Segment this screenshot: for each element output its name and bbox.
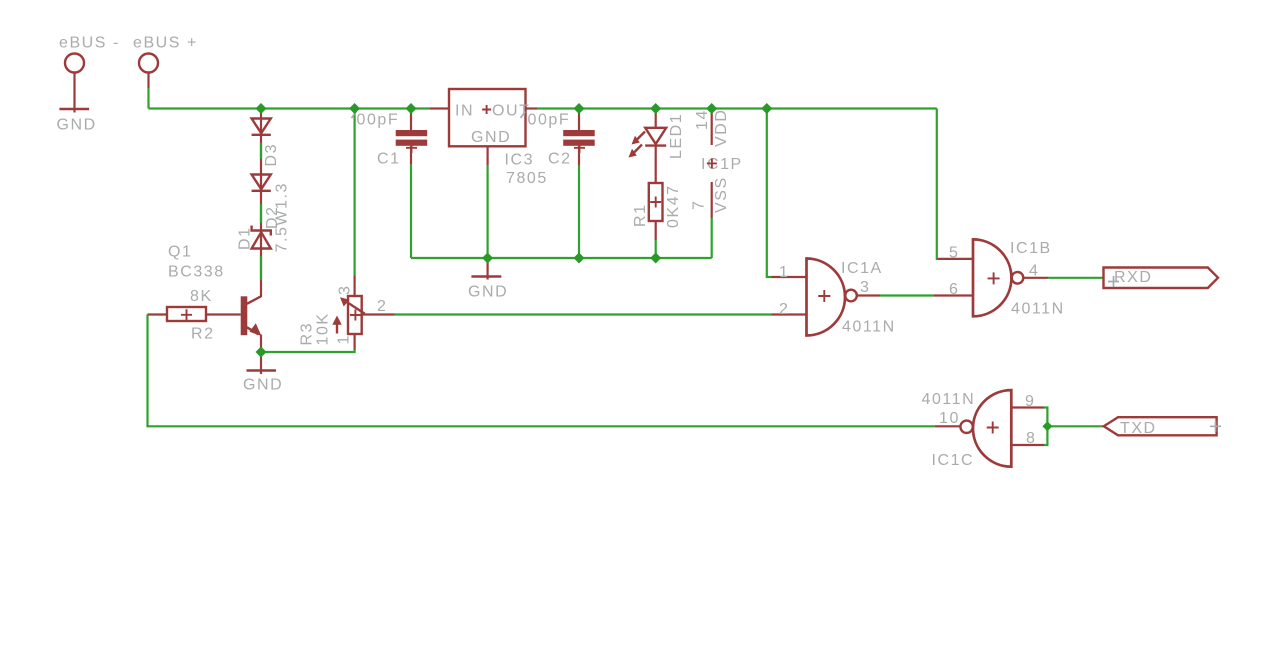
junction ground rail at R1: [650, 253, 661, 264]
svg-text:IC3: IC3: [505, 152, 535, 169]
resistor R1: [649, 183, 663, 240]
svg-text:00pF: 00pF: [357, 112, 400, 129]
voltage regulator IC3 7805: [430, 89, 537, 165]
wire drop to R3 pin3: [354, 109, 356, 276]
svg-text:3: 3: [337, 285, 354, 295]
svg-text:7805: 7805: [506, 170, 548, 187]
wire middle net R3 pin2 to IC1A pin2: [395, 313, 772, 315]
svg-text:7: 7: [691, 200, 708, 210]
resistor R2: [148, 307, 241, 321]
wire top rail left: [149, 107, 431, 109]
wire top rail right: [537, 107, 937, 109]
svg-text:10K: 10K: [315, 312, 332, 345]
wire drop to IC1A pin1: [767, 109, 772, 278]
svg-text:eBUS +: eBUS +: [133, 35, 198, 52]
svg-text:14: 14: [694, 109, 711, 130]
junction top rail at VDD: [706, 103, 717, 114]
wire IC1C pins 9-8 link: [1044, 408, 1047, 446]
flag TXD: [1104, 417, 1221, 437]
svg-text:D3: D3: [263, 143, 280, 167]
svg-text:00pF: 00pF: [528, 112, 571, 129]
power symbol IC1P VSS pin 7: [691, 176, 731, 218]
value 100pF (C2): [521, 112, 571, 129]
svg-text:C2: C2: [548, 151, 572, 168]
svg-text:IC1A: IC1A: [841, 260, 883, 277]
diode D2: [252, 175, 271, 191]
diode chain pin line: [260, 109, 262, 298]
ground symbol GND (eBUS-): [57, 109, 97, 134]
junction top rail at LED1: [650, 103, 661, 114]
svg-text:C1: C1: [377, 151, 401, 168]
svg-text:7.5W1.3: 7.5W1.3: [274, 182, 291, 252]
terminal eBUS-: [59, 35, 120, 113]
svg-text:VDD: VDD: [713, 109, 730, 147]
svg-text:6: 6: [949, 281, 959, 298]
wire IC1A out to IC1B pin6: [880, 294, 934, 296]
svg-text:4011N: 4011N: [1011, 301, 1065, 318]
zener diode D1: [252, 226, 271, 249]
wire R1 lower drop: [655, 240, 657, 258]
potentiometer R3: [332, 276, 394, 350]
svg-text:GND: GND: [468, 284, 508, 301]
wire ground rail: [411, 257, 712, 259]
capacitor C2: [563, 109, 595, 166]
junction IC1C output link: [1042, 421, 1052, 431]
junction Q1 emitter: [256, 347, 267, 358]
svg-text:GND: GND: [243, 377, 283, 394]
svg-text:IN: IN: [455, 103, 474, 120]
svg-text:5: 5: [949, 245, 959, 262]
value 100pF (C1): [352, 112, 400, 129]
svg-text:LED1: LED1: [668, 113, 685, 159]
junction ground rail at 7805: [482, 253, 493, 264]
svg-text:2: 2: [779, 301, 789, 318]
transistor Q1: [241, 296, 262, 352]
svg-text:TXD: TXD: [1120, 420, 1157, 437]
svg-text:2: 2: [377, 298, 387, 315]
wire VSS drop: [711, 218, 713, 258]
junction ground rail at C2: [574, 253, 585, 264]
wire 7805 gnd drop: [487, 165, 489, 258]
wire drop to IC1B pin5: [936, 109, 939, 259]
wire long TXD net: [148, 315, 935, 427]
svg-text:8: 8: [1026, 430, 1036, 447]
junction top rail at R3 drop: [349, 103, 360, 114]
junction top rail at D3: [256, 103, 267, 114]
svg-text:BC338: BC338: [168, 264, 225, 281]
svg-text:4: 4: [1029, 263, 1039, 280]
svg-text:IC1P: IC1P: [701, 156, 743, 173]
svg-text:IC1B: IC1B: [1010, 240, 1052, 257]
flag RXD: [1104, 268, 1219, 289]
svg-text:1: 1: [779, 264, 789, 281]
svg-text:GND: GND: [57, 117, 97, 134]
wire IC1B out to RXD: [1048, 277, 1104, 279]
svg-text:9: 9: [1025, 393, 1035, 410]
svg-text:R3: R3: [299, 322, 316, 346]
nand gate IC1B: [934, 239, 1048, 316]
svg-text:4011N: 4011N: [922, 391, 976, 408]
svg-text:0K47: 0K47: [665, 184, 682, 228]
svg-text:RXD: RXD: [1114, 269, 1152, 286]
svg-text:VSS: VSS: [713, 176, 730, 213]
diode D3: [252, 119, 271, 135]
power symbol IC1P VDD pin 14: [694, 109, 730, 148]
svg-text:R1: R1: [632, 203, 649, 227]
ground symbol GND (Q1 emitter): [243, 352, 283, 394]
svg-text:10: 10: [939, 410, 960, 427]
junction top rail at C1: [406, 103, 417, 114]
junction top rail at C2: [574, 103, 585, 114]
svg-text:D1: D1: [237, 226, 254, 250]
wire between D1 and Q1 collector: [260, 256, 262, 280]
svg-text:R2: R2: [191, 326, 215, 343]
capacitor C1: [396, 109, 428, 165]
wire C2 lower drop: [578, 165, 580, 258]
wire between D3 and D2: [260, 143, 262, 159]
junction top rail at IC1A pin1 drop: [761, 103, 772, 114]
svg-text:3: 3: [860, 279, 870, 296]
wire eBUS+ drop: [147, 88, 149, 109]
ground symbol GND (rail): [468, 258, 508, 301]
nand gate IC1A: [772, 259, 881, 336]
wire between D2 and D1: [260, 204, 262, 223]
svg-text:1: 1: [336, 334, 353, 344]
wire C1 lower to ground rail: [410, 165, 412, 258]
svg-text:4011N: 4011N: [842, 319, 896, 336]
svg-text:OUT: OUT: [492, 103, 530, 120]
svg-text:IC1C: IC1C: [932, 452, 975, 469]
svg-text:GND: GND: [471, 129, 511, 146]
svg-text:eBUS -: eBUS -: [59, 35, 120, 52]
svg-text:8K: 8K: [190, 288, 213, 305]
wire IC1C out to TXD: [1047, 425, 1103, 427]
LED LED1: [629, 109, 667, 184]
nand gate IC1C: [935, 390, 1044, 467]
label IC1P: [701, 156, 743, 173]
wire emitter to R3 pin1: [261, 349, 355, 352]
svg-text:Q1: Q1: [168, 244, 192, 261]
terminal eBUS+: [133, 35, 198, 89]
